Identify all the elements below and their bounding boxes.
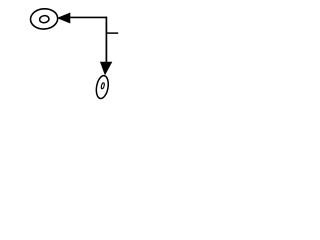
node A inner ellipse <box>39 15 49 23</box>
wire horizontal segment <box>69 16 107 18</box>
node A outer ellipse <box>30 8 59 30</box>
tick branch stub <box>106 32 118 34</box>
wire vertical segment <box>105 17 107 63</box>
node B inner ellipse <box>101 83 105 89</box>
arrowhead into node A <box>58 13 70 23</box>
node B outer ellipse <box>95 75 110 100</box>
arrowhead into node B <box>100 62 111 75</box>
